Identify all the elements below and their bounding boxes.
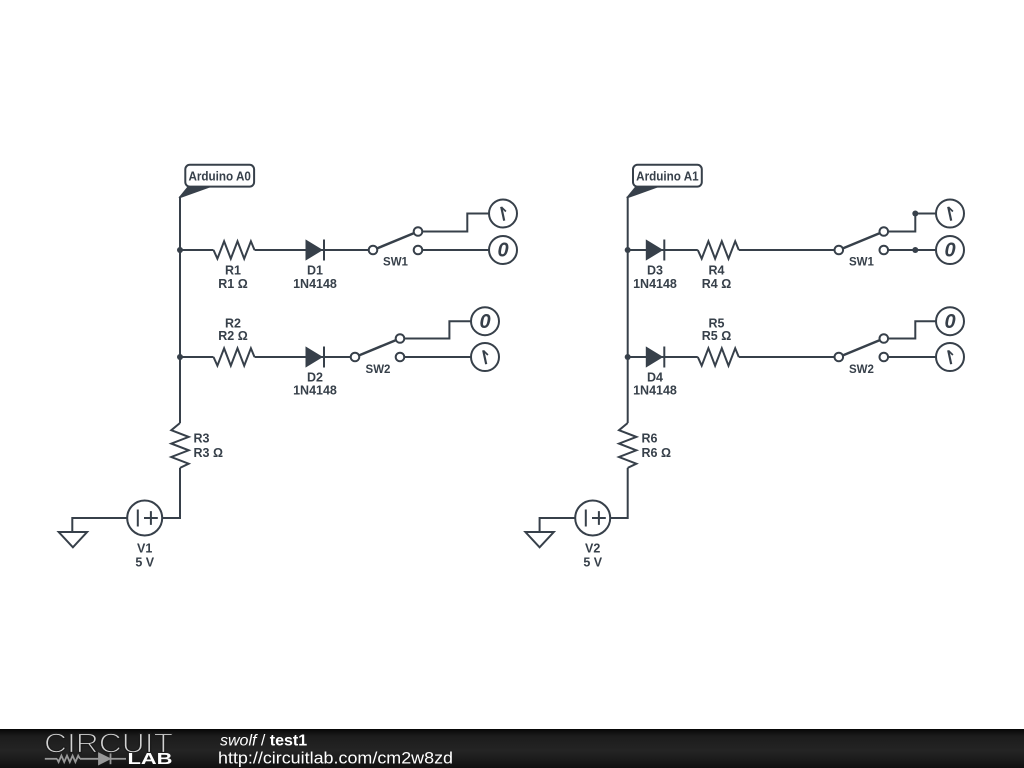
voltage source V1 (127, 501, 162, 536)
svg-text:R6: R6 (642, 431, 658, 445)
wire: right SW1 upper throw to node 1 (888, 214, 936, 232)
wire: SW1 upper throw to node 1 (422, 214, 489, 232)
svg-text:Arduino A0: Arduino A0 (188, 169, 251, 183)
junction at D4 branch (625, 354, 631, 360)
switch SW2 (right) (835, 334, 889, 361)
svg-text:V1: V1 (137, 542, 152, 556)
svg-text:R2 Ω: R2 Ω (218, 329, 247, 343)
wire: A1 vertical bus (627, 197, 629, 424)
junction at node 1 stub (right row1) (912, 211, 918, 217)
wire: right SW1 lower throw to node 0 (888, 249, 936, 251)
wire: V1 to ground (72, 518, 127, 532)
wire row2 right: bus through D4 to R5 (628, 356, 698, 358)
svg-text:D1: D1 (307, 263, 323, 277)
wire: A1 bus below R6 to V2 (610, 468, 628, 518)
svg-text:Arduino A1: Arduino A1 (636, 169, 699, 183)
diode D2 (306, 347, 324, 368)
svg-text:R4 Ω: R4 Ω (702, 277, 731, 291)
svg-text:1N4148: 1N4148 (633, 383, 677, 397)
svg-text:SW1: SW1 (849, 257, 875, 269)
wire row1 right: R4 to SW1 common (739, 249, 835, 251)
wire row2: R2 to SW2 common (255, 356, 351, 358)
svg-text:0: 0 (479, 311, 490, 333)
CircuitLab logo: resistor-diode glyph (45, 753, 126, 764)
svg-text:swolf / test1: swolf / test1 (220, 733, 307, 750)
resistor R2 (214, 348, 255, 365)
svg-text:R4: R4 (709, 263, 725, 277)
resistor R3 (171, 423, 188, 468)
wire: right SW2 lower throw to node 1 (888, 356, 936, 358)
diode D1 (306, 240, 324, 261)
svg-text:SW2: SW2 (849, 364, 874, 376)
switch SW1 (right) (835, 227, 889, 254)
svg-text:R3 Ω: R3 Ω (194, 446, 223, 460)
svg-text:D4: D4 (647, 370, 663, 384)
node 0 flag (left row1) (489, 236, 517, 264)
svg-text:R5 Ω: R5 Ω (702, 329, 731, 343)
resistor R6 (619, 423, 636, 468)
wire row1 left: bus to R1 (180, 249, 214, 251)
node 0 flag (right row2) (936, 307, 964, 335)
svg-text:http://circuitlab.com/cm2w8zd: http://circuitlab.com/cm2w8zd (218, 749, 453, 767)
svg-text:0: 0 (944, 311, 955, 333)
wire: A0 bus below R3 to V1 (163, 468, 181, 518)
svg-text:1N4148: 1N4148 (633, 277, 677, 291)
node 1 flag (right row1) (936, 200, 964, 228)
resistor R5 (698, 348, 739, 365)
svg-text:D3: D3 (647, 263, 663, 277)
ground (right) (525, 532, 553, 547)
voltage source V2 (575, 501, 610, 536)
diode D4 (646, 347, 664, 368)
svg-text:5 V: 5 V (583, 556, 602, 570)
ground (left) (59, 532, 87, 547)
svg-text:0: 0 (497, 240, 508, 262)
wire: SW1 lower throw to node 0 (422, 249, 489, 251)
svg-text:0: 0 (944, 240, 955, 262)
footer bar (0, 729, 1024, 768)
junction at node 0 stub (right row1) (912, 247, 918, 253)
resistor R4 (698, 241, 739, 258)
node 1 flag (left row1) (489, 200, 517, 228)
svg-text:1N4148: 1N4148 (293, 277, 337, 291)
junction at R2 branch (177, 354, 183, 360)
svg-text:SW1: SW1 (383, 257, 409, 269)
wire row1 right: bus through D3 to R4 (628, 249, 698, 251)
wire: right SW2 upper throw to node 0 (888, 321, 936, 338)
node 0 flag (left row2) (471, 307, 499, 335)
resistor R1 (214, 241, 255, 258)
switch SW2 (left) (351, 334, 405, 361)
junction at R1 branch (177, 247, 183, 253)
net flag Arduino A1 (626, 165, 702, 198)
svg-text:1N4148: 1N4148 (293, 383, 337, 397)
node 1 flag (left row2) (471, 343, 499, 371)
svg-text:LAB: LAB (128, 751, 173, 768)
diode D3 (646, 240, 664, 261)
svg-text:D2: D2 (307, 370, 323, 384)
wire: A0 vertical bus (179, 197, 181, 424)
node 1 flag (right row2) (936, 343, 964, 371)
node 0 flag (right row1) (936, 236, 964, 264)
svg-text:R1 Ω: R1 Ω (218, 277, 247, 291)
svg-text:SW2: SW2 (366, 364, 391, 376)
wire: V2 to ground (540, 518, 575, 532)
net flag Arduino A0 (178, 165, 254, 198)
svg-text:5 V: 5 V (135, 556, 154, 570)
wire row1: R1 to SW1 common (255, 249, 369, 251)
wire row2 left: bus to R2 (180, 356, 214, 358)
svg-text:R1: R1 (225, 263, 241, 277)
wire: SW2 lower throw to node 1 (404, 356, 471, 358)
wire: SW2 upper throw to node 0 (404, 321, 471, 338)
junction at D3 branch (625, 247, 631, 253)
svg-text:R6 Ω: R6 Ω (642, 446, 671, 460)
wire row2 right: R5 to SW2 common (739, 356, 835, 358)
svg-text:V2: V2 (585, 542, 600, 556)
switch SW1 (left) (369, 227, 423, 254)
svg-text:R3: R3 (194, 431, 210, 445)
